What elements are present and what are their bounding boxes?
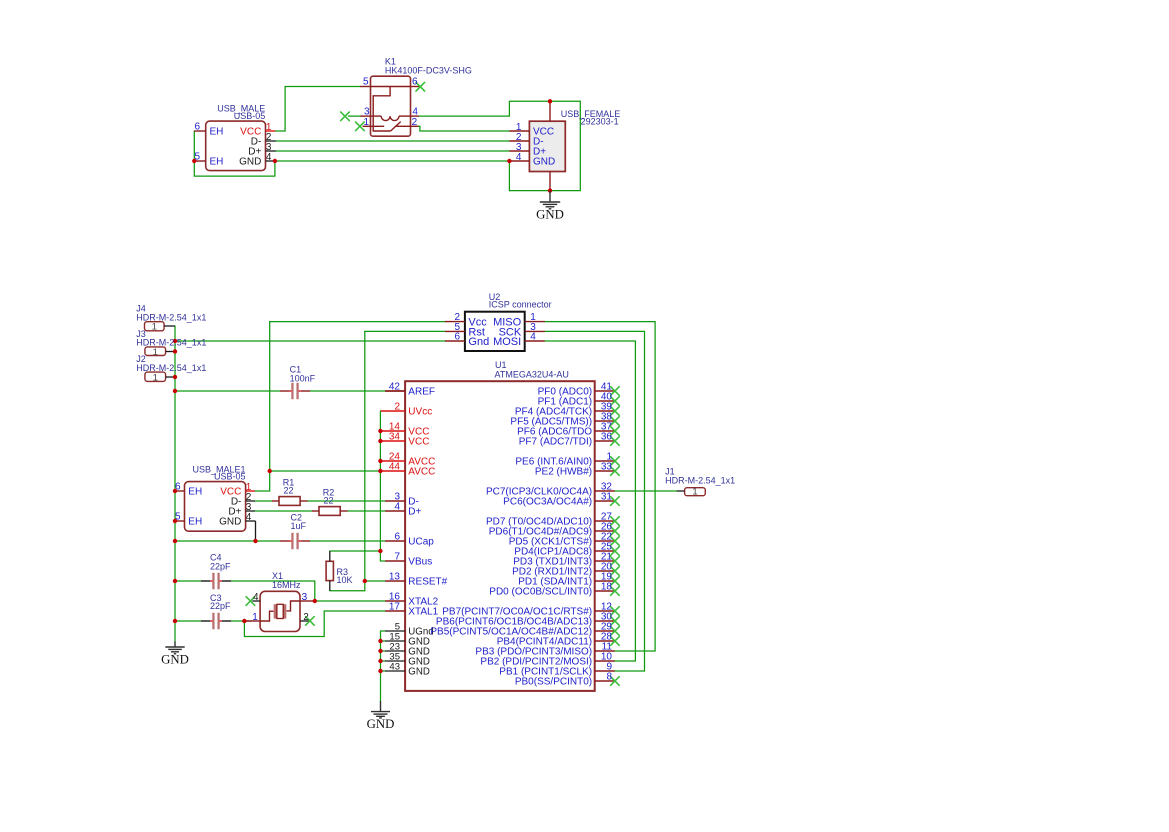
svg-text:16MHz: 16MHz — [272, 580, 301, 590]
svg-text:AREF: AREF — [408, 387, 435, 398]
svg-text:GND: GND — [408, 667, 430, 678]
svg-text:PE2 (HWB#): PE2 (HWB#) — [535, 467, 592, 478]
svg-text:17: 17 — [389, 602, 401, 613]
svg-text:1: 1 — [153, 347, 158, 358]
svg-text:1uF: 1uF — [291, 521, 307, 531]
svg-text:GND: GND — [533, 157, 555, 168]
svg-text:292303-1: 292303-1 — [581, 116, 619, 126]
svg-text:ATMEGA32U4-AU: ATMEGA32U4-AU — [495, 369, 569, 379]
svg-text:PD0 (OC0B/SCL/INT0): PD0 (OC0B/SCL/INT0) — [489, 587, 592, 598]
svg-text:31: 31 — [601, 492, 613, 503]
svg-text:HDR-M-2.54_1x1: HDR-M-2.54_1x1 — [136, 338, 206, 348]
svg-text:8: 8 — [606, 672, 612, 683]
svg-text:5: 5 — [175, 512, 181, 523]
svg-text:EH: EH — [210, 157, 224, 168]
svg-text:36: 36 — [601, 432, 613, 443]
svg-text:5: 5 — [363, 77, 369, 88]
svg-text:HDR-M-2.54_1x1: HDR-M-2.54_1x1 — [665, 476, 735, 486]
svg-text:22: 22 — [283, 485, 293, 495]
svg-text:RESET#: RESET# — [408, 577, 447, 588]
svg-text:3: 3 — [302, 592, 308, 603]
svg-text:100nF: 100nF — [290, 374, 316, 384]
svg-text:1: 1 — [153, 372, 158, 383]
svg-text:6: 6 — [394, 532, 400, 543]
svg-text:4: 4 — [246, 512, 252, 523]
svg-text:EH: EH — [188, 487, 202, 498]
svg-text:MOSI: MOSI — [493, 336, 521, 348]
svg-text:6: 6 — [454, 331, 460, 342]
svg-text:18: 18 — [601, 582, 613, 593]
svg-text:2: 2 — [303, 612, 309, 623]
svg-text:6: 6 — [412, 77, 418, 88]
svg-text:33: 33 — [601, 462, 613, 473]
svg-text:PB0(SS/PCINT0): PB0(SS/PCINT0) — [515, 677, 592, 688]
svg-text:PC6(OC3A/OC4A#): PC6(OC3A/OC4A#) — [503, 497, 592, 508]
svg-text:4: 4 — [253, 592, 259, 603]
svg-text:UCap: UCap — [408, 537, 434, 548]
svg-text:PF7 (ADC7/TDI): PF7 (ADC7/TDI) — [519, 437, 592, 448]
svg-text:ICSP connector: ICSP connector — [489, 300, 552, 310]
svg-text:GND: GND — [161, 653, 189, 667]
svg-text:1: 1 — [252, 612, 258, 623]
svg-text:6: 6 — [175, 482, 181, 493]
svg-text:13: 13 — [389, 572, 401, 583]
svg-text:XTAL1: XTAL1 — [408, 607, 438, 618]
svg-text:UVcc: UVcc — [408, 407, 432, 418]
svg-text:HDR-M-2.54_1x1: HDR-M-2.54_1x1 — [136, 312, 206, 322]
svg-text:34: 34 — [389, 432, 401, 443]
svg-text:HDR-M-2.54_1x1: HDR-M-2.54_1x1 — [136, 363, 206, 373]
svg-text:EH: EH — [188, 517, 202, 528]
svg-text:42: 42 — [389, 382, 401, 393]
svg-text:1: 1 — [152, 321, 157, 332]
svg-text:AVCC: AVCC — [408, 467, 435, 478]
svg-text:GND: GND — [367, 717, 395, 731]
svg-text:43: 43 — [389, 662, 400, 673]
svg-text:6: 6 — [194, 122, 200, 133]
svg-text:GND: GND — [239, 157, 261, 168]
svg-text:GND: GND — [536, 208, 564, 222]
svg-text:4: 4 — [266, 152, 272, 163]
svg-text:44: 44 — [389, 462, 401, 473]
svg-text:5: 5 — [194, 152, 200, 163]
svg-text:4: 4 — [394, 502, 400, 513]
svg-text:USB-05: USB-05 — [214, 472, 246, 482]
svg-text:D+: D+ — [408, 507, 421, 518]
svg-text:VCC: VCC — [408, 437, 429, 448]
svg-text:1: 1 — [363, 117, 369, 128]
svg-text:EH: EH — [210, 127, 224, 138]
svg-text:4: 4 — [516, 152, 522, 163]
svg-text:1: 1 — [692, 486, 697, 497]
svg-text:USB-05: USB-05 — [234, 111, 266, 121]
svg-text:22pF: 22pF — [210, 561, 231, 571]
svg-text:Gnd: Gnd — [468, 336, 489, 348]
svg-text:HK4100F-DC3V-SHG: HK4100F-DC3V-SHG — [385, 66, 472, 76]
svg-text:2: 2 — [394, 402, 400, 413]
svg-text:10K: 10K — [337, 575, 353, 585]
svg-text:VBus: VBus — [408, 557, 432, 568]
svg-text:22pF: 22pF — [210, 601, 231, 611]
svg-text:4: 4 — [530, 331, 536, 342]
svg-text:GND: GND — [219, 517, 241, 528]
svg-text:7: 7 — [394, 552, 400, 563]
svg-text:22: 22 — [323, 496, 333, 506]
svg-text:2: 2 — [412, 117, 418, 128]
